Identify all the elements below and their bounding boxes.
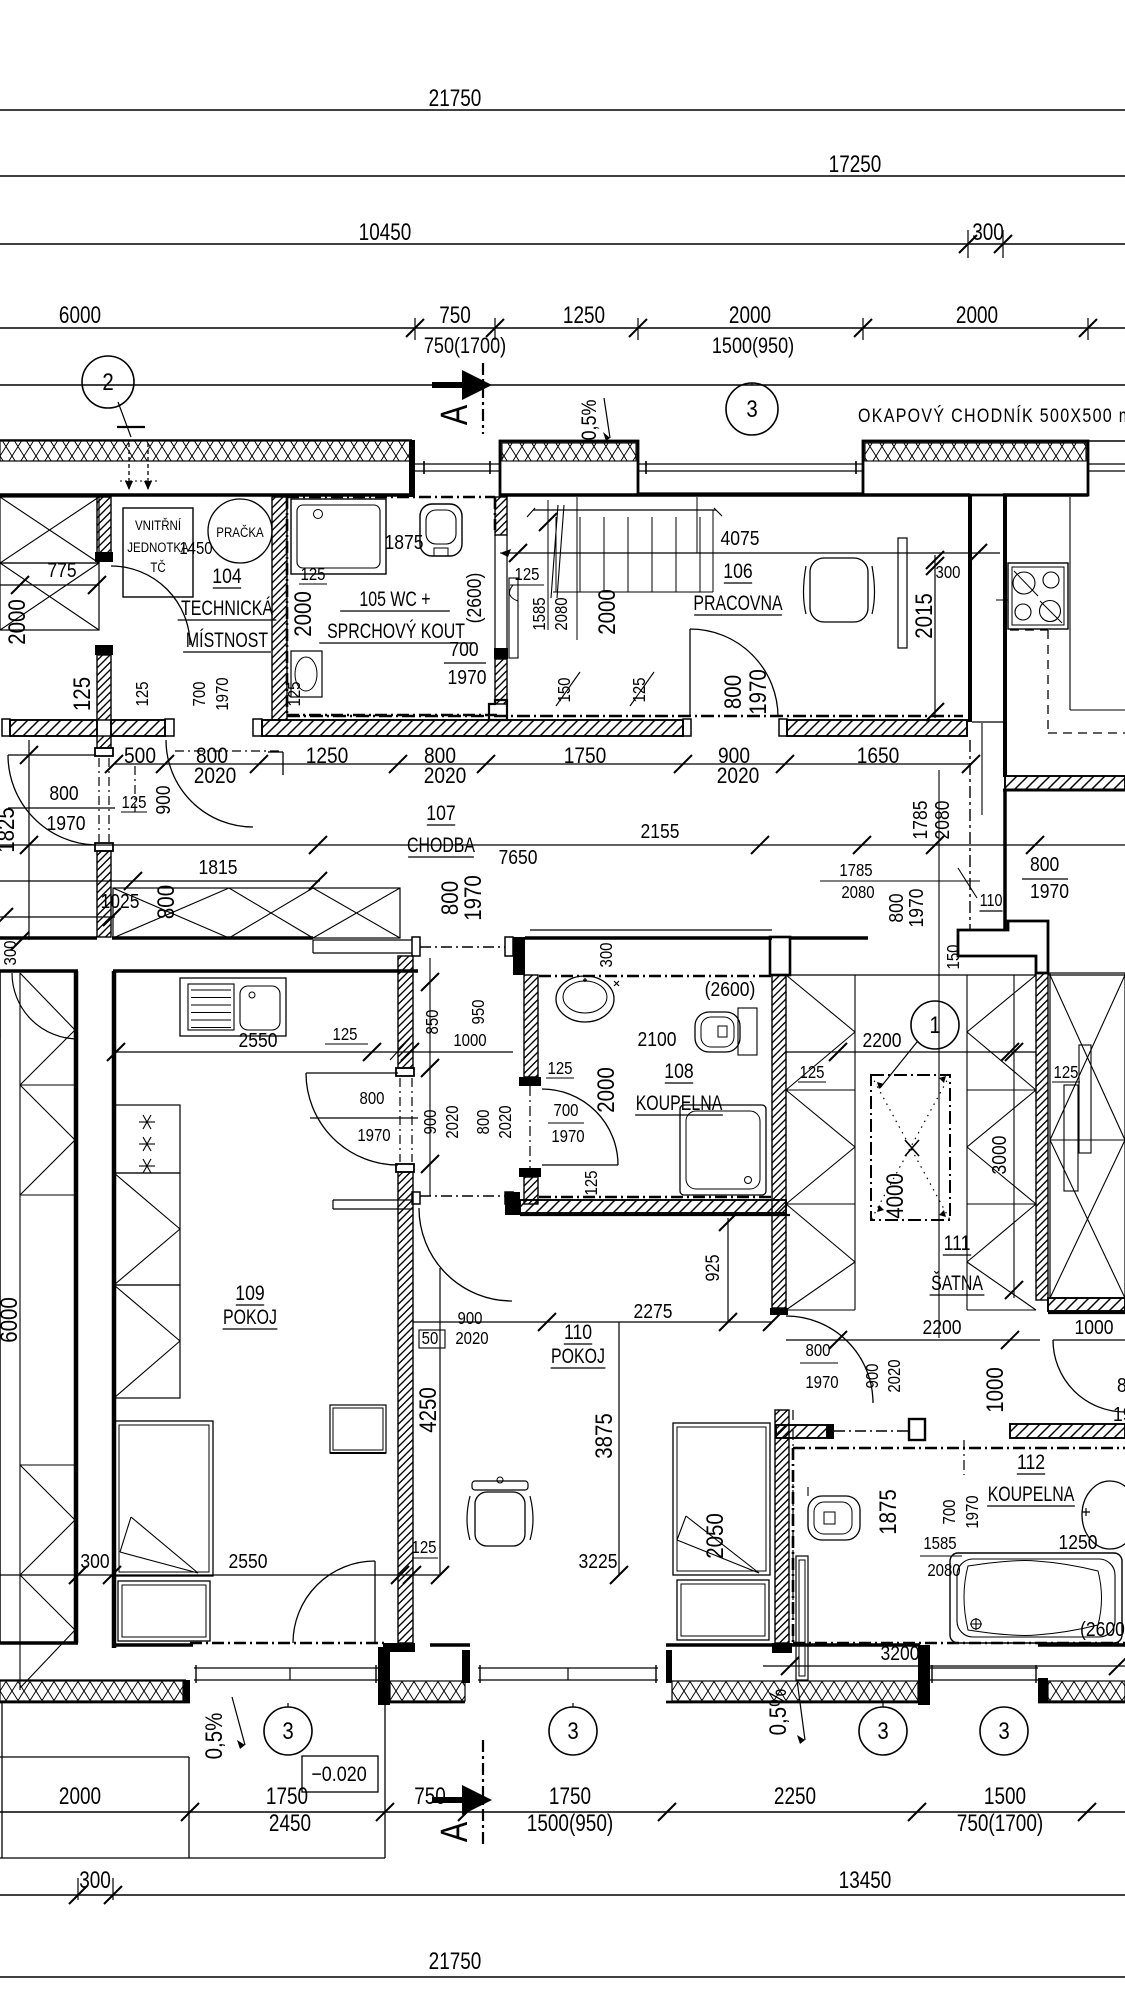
svg-text:1000: 1000	[982, 1367, 1009, 1413]
svg-text:1: 1	[929, 1011, 940, 1038]
room 104 technicka mistnost	[123, 508, 193, 597]
svg-text:(2600): (2600)	[705, 979, 756, 1002]
wall 109/110 hatched	[398, 956, 413, 1068]
svg-text:2000: 2000	[4, 599, 31, 645]
washbasin 108	[556, 976, 614, 1022]
svg-text:125: 125	[301, 565, 326, 584]
wall 106/kitchen (300 thick)	[968, 495, 972, 722]
satna left wardrobe	[854, 975, 856, 1310]
svg-text:112: 112	[1017, 1450, 1045, 1474]
svg-text:900: 900	[153, 785, 176, 814]
svg-text:2155: 2155	[641, 821, 680, 844]
svg-text:1970: 1970	[551, 1127, 584, 1146]
svg-text:2020: 2020	[455, 1329, 488, 1348]
bathroom 108 boundary	[539, 975, 772, 978]
svg-text:1970: 1970	[47, 813, 86, 836]
dim lines 110	[439, 1268, 441, 1575]
svg-text:(2600: (2600	[1080, 1619, 1125, 1642]
svg-text:850: 850	[423, 1010, 442, 1035]
svg-text:150: 150	[555, 678, 574, 703]
bottom dim chain 1	[0, 1811, 1125, 1813]
svg-text:750: 750	[439, 301, 471, 329]
staircase 106	[533, 509, 716, 511]
svg-text:1250: 1250	[306, 744, 349, 769]
svg-text:(2600): (2600)	[464, 573, 487, 624]
svg-text:800: 800	[806, 1341, 831, 1360]
svg-text:1970: 1970	[448, 667, 487, 690]
svg-text:17250: 17250	[829, 150, 882, 178]
svg-text:3225: 3225	[579, 1551, 618, 1574]
svg-text:3: 3	[877, 1717, 888, 1744]
svg-text:2020: 2020	[496, 1105, 515, 1138]
svg-text:109: 109	[235, 1281, 264, 1305]
closet chevrons	[20, 973, 75, 1030]
svg-text:1450: 1450	[179, 539, 212, 558]
small dims near 104 door	[134, 766, 136, 812]
svg-text:800: 800	[474, 1110, 493, 1135]
bottom rooms inner edge	[0, 1641, 78, 1645]
svg-text:800: 800	[1030, 854, 1059, 877]
svg-text:104: 104	[212, 564, 241, 588]
shower tray 105	[291, 499, 386, 574]
svg-text:900: 900	[458, 1309, 483, 1328]
corridor dim chain	[114, 763, 971, 765]
dim 775	[0, 584, 99, 586]
svg-text:111: 111	[944, 1231, 971, 1255]
dimension line 10450 / 300	[0, 243, 1125, 245]
corridor bottom wall lower line	[0, 969, 78, 973]
svg-text:1750: 1750	[564, 744, 607, 769]
room 105 boundary dash-dot	[287, 496, 495, 499]
hall dim line vertical	[429, 958, 431, 1196]
svg-text:125: 125	[548, 1059, 573, 1078]
kitchen lower wall band	[972, 721, 1003, 723]
svg-text:2250: 2250	[774, 1782, 816, 1810]
svg-text:3: 3	[746, 395, 757, 422]
chest below bed 109	[118, 1581, 210, 1641]
svg-text:125: 125	[122, 793, 147, 812]
svg-text:ŠATNA: ŠATNA	[931, 1271, 983, 1296]
svg-text:2020: 2020	[717, 764, 760, 789]
nightstand 110	[330, 1405, 386, 1453]
shower 108	[680, 1105, 766, 1195]
svg-text:2: 2	[102, 368, 113, 395]
downpipe symbol	[128, 443, 130, 490]
bed 109	[115, 1421, 213, 1576]
dining right wardrobe	[1050, 973, 1125, 1298]
svg-text:2020: 2020	[194, 764, 237, 789]
chest 110	[677, 1580, 769, 1640]
svg-text:3875: 3875	[591, 1413, 618, 1459]
U pier near kitchen	[981, 723, 983, 815]
bed 110	[673, 1423, 770, 1575]
door 109 from hall	[306, 1072, 398, 1074]
washing machine pracka	[208, 499, 272, 563]
svg-text:950: 950	[469, 1000, 488, 1025]
svg-text:1970: 1970	[805, 1373, 838, 1392]
washbasin 105	[291, 651, 322, 697]
stair dim lines	[547, 500, 549, 630]
svg-text:2550: 2550	[229, 1551, 268, 1574]
window sills 112	[930, 1667, 1038, 1669]
svg-text:2200: 2200	[923, 1317, 962, 1340]
terrace outline	[1, 1702, 3, 1858]
svg-text:1750: 1750	[266, 1782, 308, 1810]
bottom wall 108 hatched band	[520, 1200, 786, 1213]
satna top thin line	[786, 974, 1036, 976]
corridor bottom wall upper line	[0, 936, 97, 940]
cabinet column 109	[114, 1105, 180, 1173]
svg-text:1970: 1970	[963, 1495, 982, 1528]
svg-text:925: 925	[702, 1254, 723, 1281]
grid bubble 1	[911, 1001, 959, 1049]
svg-text:2275: 2275	[634, 1301, 673, 1324]
svg-text:900: 900	[421, 1110, 440, 1135]
corridor top wall hatched band	[2, 719, 10, 736]
svg-text:2000: 2000	[59, 1782, 101, 1810]
toilet 105	[420, 504, 462, 556]
svg-text:1250: 1250	[1059, 1532, 1098, 1555]
rotated dims right corridor	[938, 770, 940, 1338]
svg-text:2020: 2020	[424, 764, 467, 789]
pier 108 top-left	[513, 937, 525, 975]
wall 105/106 with duct	[495, 497, 507, 535]
satna right wardrobe	[966, 975, 968, 1310]
svg-text:1750: 1750	[549, 1782, 591, 1810]
svg-text:PRACOVNA: PRACOVNA	[693, 592, 783, 616]
svg-text:4000: 4000	[882, 1173, 909, 1219]
bottom insulation band 2	[390, 1681, 465, 1701]
svg-text:800: 800	[153, 885, 180, 919]
svg-text:750(1700): 750(1700)	[957, 1809, 1043, 1837]
svg-text:750: 750	[414, 1782, 446, 1810]
svg-text:2080: 2080	[932, 801, 955, 840]
svg-text:PRAČKA: PRAČKA	[216, 524, 264, 540]
svg-text:3: 3	[282, 1717, 293, 1744]
svg-text:125: 125	[1054, 1063, 1079, 1082]
svg-text:10450: 10450	[359, 218, 412, 246]
svg-text:110: 110	[980, 892, 1003, 911]
dash-dot ceiling line corridor	[287, 715, 963, 717]
kitchen sink	[180, 978, 286, 1036]
svg-text:1815: 1815	[199, 857, 238, 880]
svg-text:700: 700	[449, 639, 478, 662]
svg-text:2000: 2000	[290, 591, 317, 637]
bottom insulation band 3	[672, 1681, 918, 1701]
left vertical dim 1825	[28, 740, 30, 940]
svg-text:700: 700	[940, 1500, 959, 1525]
window top-right	[1088, 440, 1125, 442]
svg-text:4250: 4250	[415, 1387, 442, 1433]
svg-text:1875: 1875	[385, 532, 424, 555]
svg-text:A: A	[434, 405, 476, 425]
door left room swing	[8, 754, 95, 756]
washbasin 112	[1082, 1481, 1125, 1549]
svg-text:MÍSTNOST: MÍSTNOST	[186, 629, 269, 653]
svg-text:KOUPELNA: KOUPELNA	[636, 1092, 723, 1116]
door satna right	[1053, 1340, 1125, 1412]
svg-text:500: 500	[124, 744, 156, 769]
window 2000 top-middle	[638, 463, 863, 465]
svg-text:7650: 7650	[499, 847, 538, 870]
top exterior wall insulation band (left)	[0, 439, 412, 441]
svg-text:3: 3	[567, 1717, 578, 1744]
svg-text:125: 125	[285, 682, 304, 707]
svg-text:2200: 2200	[863, 1030, 902, 1053]
door 104 swing	[111, 566, 190, 645]
svg-text:1500(950): 1500(950)	[712, 334, 794, 358]
section mark A (top)	[432, 382, 462, 388]
svg-text:2080: 2080	[841, 883, 874, 902]
svg-text:300: 300	[972, 218, 1004, 246]
svg-text:1000: 1000	[453, 1031, 486, 1050]
svg-text:108: 108	[664, 1059, 693, 1083]
svg-text:1970: 1970	[1113, 1404, 1125, 1427]
svg-text:1970: 1970	[357, 1126, 390, 1145]
terrace door sills middle	[478, 1667, 658, 1669]
svg-text:2020: 2020	[443, 1105, 462, 1138]
bottom insulation band left	[0, 1679, 186, 1681]
wall 110/112 hatched	[775, 1410, 789, 1643]
svg-text:1585: 1585	[923, 1534, 956, 1553]
svg-text:125: 125	[630, 678, 649, 703]
grid bubbles 3 bottom	[264, 1707, 312, 1755]
section mark A (bottom)	[432, 1797, 462, 1803]
desk chair 110	[472, 1481, 528, 1490]
room 109 left wall	[112, 971, 117, 1648]
door 110-hall	[786, 1316, 873, 1403]
svg-text:900: 900	[863, 1364, 882, 1389]
svg-text:2450: 2450	[269, 1809, 311, 1837]
svg-text:106: 106	[723, 559, 752, 583]
vertical hatched wall V1 lower part	[97, 736, 111, 748]
bathtub 112	[950, 1553, 1122, 1643]
svg-text:300: 300	[936, 563, 961, 582]
svg-text:0,5%: 0,5%	[201, 1712, 228, 1759]
inner face of top wall	[0, 493, 413, 497]
svg-text:2080: 2080	[927, 1561, 960, 1580]
svg-text:107: 107	[426, 801, 455, 825]
svg-text:125: 125	[133, 682, 152, 707]
grid bubble 2	[82, 356, 134, 408]
dimension line 21750 (top)	[0, 109, 1125, 111]
svg-text:1875: 1875	[875, 1489, 902, 1535]
svg-text:2020: 2020	[885, 1359, 904, 1392]
satna right wall hatched	[1036, 973, 1048, 1300]
door 109	[374, 1561, 376, 1643]
door 108	[542, 1164, 618, 1166]
dim 1815	[0, 880, 320, 882]
svg-text:105 WC +: 105 WC +	[359, 588, 430, 612]
bottom dim line 300/13450	[0, 1894, 1125, 1896]
svg-text:3000: 3000	[989, 1136, 1012, 1175]
svg-text:125: 125	[333, 1025, 358, 1044]
svg-text:125: 125	[69, 677, 96, 711]
kitchen stove	[1008, 563, 1068, 629]
stair break line	[551, 505, 558, 598]
svg-text:300: 300	[79, 1866, 111, 1894]
wall pier	[409, 440, 415, 497]
svg-text:3: 3	[998, 1717, 1009, 1744]
svg-text:0,5%: 0,5%	[765, 1688, 792, 1735]
svg-text:6000: 6000	[0, 1297, 22, 1343]
corridor built-in wardrobe	[113, 888, 400, 938]
svg-text:VNITŘNÍ: VNITŘNÍ	[135, 517, 182, 533]
svg-text:0,5%: 0,5%	[578, 400, 602, 441]
svg-text:KOUPELNA: KOUPELNA	[988, 1483, 1075, 1507]
bottom insulation band right	[1048, 1681, 1125, 1701]
svg-text:POKOJ: POKOJ	[551, 1345, 605, 1369]
svg-text:1585: 1585	[530, 597, 549, 630]
svg-text:1500(950): 1500(950)	[527, 1809, 613, 1837]
wall 108 left hatched	[524, 975, 538, 1077]
svg-text:775: 775	[47, 560, 76, 583]
svg-text:1970: 1970	[906, 889, 929, 928]
svg-text:700: 700	[554, 1101, 579, 1120]
grid bubble 3 (top)	[726, 383, 778, 435]
svg-text:125: 125	[515, 565, 540, 584]
door hall-110	[420, 1195, 505, 1197]
svg-text:2000: 2000	[729, 301, 771, 329]
dimension line 17250	[0, 175, 1125, 177]
svg-text:1970: 1970	[460, 875, 487, 921]
svg-text:TECHNICKÁ: TECHNICKÁ	[181, 597, 273, 621]
level label -0.020	[302, 1756, 378, 1792]
stair treads	[555, 517, 557, 592]
cabinet 112	[796, 1556, 808, 1680]
terrace door sills left	[194, 1667, 378, 1669]
svg-text:1970: 1970	[213, 677, 232, 710]
pocket door niche	[313, 939, 412, 941]
svg-text:300: 300	[80, 1551, 109, 1574]
svg-text:700: 700	[190, 682, 209, 707]
door 104-corridor swing	[166, 740, 253, 827]
svg-text:2080: 2080	[552, 597, 571, 630]
svg-text:125: 125	[800, 1063, 825, 1082]
room 109 left closet	[0, 971, 1, 1643]
svg-text:800: 800	[1117, 1375, 1125, 1398]
svg-text:300: 300	[597, 943, 616, 968]
bottom dim line 21750	[0, 1976, 1125, 1978]
svg-text:1000: 1000	[1075, 1317, 1114, 1340]
svg-text:2000: 2000	[594, 589, 621, 635]
dimension chain 6000/750/1250/2000/2000	[0, 327, 1125, 329]
svg-text:1785: 1785	[910, 801, 933, 840]
dim 2015 vertical	[934, 555, 936, 718]
desk chair 106	[810, 558, 868, 622]
wall satna-112 left segment	[776, 1425, 827, 1438]
svg-text:2550: 2550	[239, 1030, 278, 1053]
wall between left room and 104	[97, 497, 111, 560]
svg-text:2000: 2000	[593, 1067, 620, 1113]
top wall pier with insulation x863-1088	[863, 441, 1088, 495]
svg-text:2000: 2000	[956, 301, 998, 329]
kitchen dashed unit	[1047, 630, 1049, 733]
svg-text:110: 110	[564, 1320, 592, 1344]
svg-text:6000: 6000	[59, 301, 101, 329]
svg-text:21750: 21750	[429, 84, 482, 112]
svg-text:SPRCHOVÝ KOUT: SPRCHOVÝ KOUT	[327, 620, 465, 644]
bottom wall piers	[378, 1647, 390, 1705]
svg-text:A: A	[434, 1822, 476, 1842]
kitchen counter lines	[1069, 497, 1071, 710]
top wall pier with insulation x500-638	[500, 441, 638, 495]
left room wardrobe (top-left)	[0, 497, 99, 563]
svg-text:1785: 1785	[839, 861, 872, 880]
svg-text:2050: 2050	[702, 1513, 729, 1559]
svg-text:4075: 4075	[721, 528, 760, 551]
svg-text:CHODBA: CHODBA	[407, 834, 475, 858]
pier 108 top-right	[770, 937, 790, 975]
interior dim line 106	[508, 552, 1000, 554]
svg-text:−0.020: −0.020	[311, 1763, 366, 1787]
svg-text:750(1700): 750(1700)	[424, 334, 506, 358]
wall 108 right hatched	[772, 975, 786, 1308]
svg-text:1650: 1650	[857, 744, 900, 769]
svg-text:125: 125	[582, 1171, 601, 1196]
pocket bar lower	[333, 1199, 413, 1201]
svg-text:1970: 1970	[1030, 881, 1069, 904]
toilet 108	[695, 1012, 740, 1052]
svg-text:OKAPOVÝ CHODNÍK 500X500 m: OKAPOVÝ CHODNÍK 500X500 m	[858, 405, 1125, 427]
svg-text:POKOJ: POKOJ	[223, 1306, 277, 1330]
svg-text:13450: 13450	[839, 1866, 892, 1894]
toilet 112	[808, 1496, 860, 1540]
door closet swing	[12, 973, 78, 1039]
dashed cupboard satna	[871, 1075, 950, 1220]
svg-text:2100: 2100	[638, 1029, 677, 1052]
window 750 top-left	[415, 463, 500, 465]
svg-text:125: 125	[412, 1538, 437, 1557]
svg-text:21750: 21750	[429, 1947, 482, 1975]
svg-text:1825: 1825	[0, 807, 19, 853]
112 axis dash-dot left	[792, 1410, 794, 1643]
svg-text:TČ: TČ	[150, 559, 165, 575]
svg-text:800: 800	[49, 783, 78, 806]
grid line with section mark	[0, 384, 1125, 386]
corridor dim line 2	[0, 844, 1125, 846]
wall between 104 and 105	[272, 497, 287, 720]
bathroom 112 boundary dash-dot	[793, 1447, 1125, 1450]
svg-text:800: 800	[720, 675, 747, 709]
svg-text:1500: 1500	[984, 1782, 1026, 1810]
svg-text:1250: 1250	[563, 301, 605, 329]
door 106 from corridor	[689, 629, 691, 717]
svg-text:50: 50	[422, 1329, 439, 1348]
stair direction line	[500, 552, 697, 554]
svg-text:2015: 2015	[911, 593, 938, 639]
svg-text:800: 800	[360, 1089, 385, 1108]
